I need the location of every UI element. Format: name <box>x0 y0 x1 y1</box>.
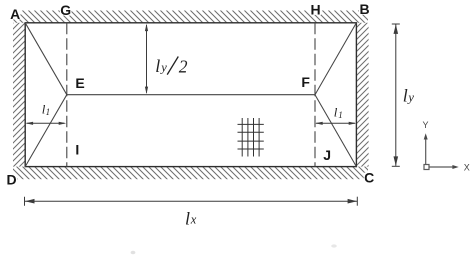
hatch band bottom <box>13 167 368 180</box>
svg-text:C: C <box>364 170 374 186</box>
svg-text:E: E <box>75 75 84 91</box>
svg-text:G: G <box>60 2 71 18</box>
slab outline rectangle A-B-C-D <box>25 23 356 167</box>
label lx <box>185 208 197 228</box>
yield line E-F <box>67 94 315 96</box>
hatch band left <box>13 23 25 167</box>
svg-text:H: H <box>310 1 320 17</box>
svg-text:l: l <box>185 208 190 228</box>
reinforcement mesh symbol <box>238 118 264 157</box>
svg-text:y: y <box>406 90 414 104</box>
label l1 left <box>42 102 50 118</box>
svg-text:I: I <box>75 141 79 157</box>
svg-text:D: D <box>7 171 17 187</box>
label l1 right <box>334 105 343 121</box>
hatch band top <box>13 11 368 23</box>
svg-text:A: A <box>10 6 20 22</box>
yield line A-E <box>25 23 67 95</box>
origin square <box>424 165 429 170</box>
hatch band right <box>356 23 368 167</box>
white backing for corner labels <box>6 3 375 185</box>
svg-text:Y: Y <box>422 120 428 130</box>
svg-text:1: 1 <box>46 107 51 117</box>
svg-text:l: l <box>155 56 160 76</box>
yield line D-E <box>25 95 67 167</box>
dimension lx <box>25 197 358 206</box>
svg-text:B: B <box>360 1 370 17</box>
yield line C-F <box>315 95 356 167</box>
svg-text:X: X <box>464 163 470 173</box>
dashed line H-J <box>314 23 316 167</box>
Y axis <box>425 139 427 165</box>
svg-text:2: 2 <box>179 57 188 77</box>
dimension ly right <box>392 24 400 166</box>
svg-text:l: l <box>334 105 338 120</box>
svg-text:J: J <box>323 147 331 163</box>
svg-text:l: l <box>403 86 408 106</box>
svg-text:1: 1 <box>338 110 343 120</box>
dimension ly/2 <box>145 24 148 95</box>
dimension l1 right <box>315 122 356 125</box>
svg-text:F: F <box>301 74 310 90</box>
dashed line G-I <box>66 23 68 167</box>
svg-text:x: x <box>190 213 197 227</box>
X axis <box>429 166 453 168</box>
yield line B-F <box>315 23 356 95</box>
faint artifact smudge right <box>331 244 337 247</box>
label ly <box>403 86 415 106</box>
coordinate axes <box>422 120 469 172</box>
dimension l1 left <box>26 122 67 125</box>
label ly/2 <box>155 56 188 77</box>
svg-text:y: y <box>159 61 167 75</box>
faint artifact smudge left <box>131 251 136 255</box>
